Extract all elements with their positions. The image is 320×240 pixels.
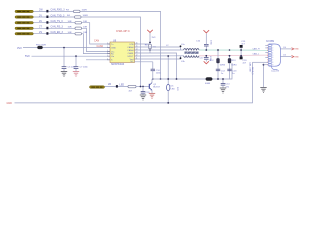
svg-text:5: 5 — [107, 55, 108, 57]
connector X2 DSUB9 body — [266, 41, 280, 66]
wire row2 CAN_TXD — [34, 17, 141, 87]
wire U1 pin to R8 — [138, 43, 151, 45]
ground bus wire bottom — [7, 62, 253, 105]
svg-text:GND: GND — [7, 102, 13, 105]
ferrite bead FB1 — [36, 45, 46, 49]
svg-text:2U: 2U — [39, 20, 42, 23]
junction LED/node row — [167, 78, 169, 80]
resistor R15 — [128, 85, 136, 92]
ground GND (C14) — [220, 88, 226, 93]
net flag row3 — [39, 20, 63, 24]
svg-text:SHLD_5: SHLD_5 — [251, 67, 253, 75]
wire row1 CAN_RXD — [34, 11, 161, 79]
transistor Q1 — [149, 83, 152, 91]
resistor R13 termination — [227, 49, 237, 79]
net 5V rail — [25, 54, 110, 58]
wire gnd pins vertical — [263, 65, 265, 88]
svg-text:CAN_GND: CAN_GND — [248, 62, 251, 72]
capacitor C14 split termination — [221, 78, 231, 88]
svg-text:2R: 2R — [108, 83, 111, 86]
resistor R4 row2 — [67, 15, 88, 18]
net CANH teal wire — [199, 49, 268, 51]
svg-text:10R: 10R — [68, 21, 72, 23]
connector pin P3 — [15, 22, 33, 24]
capacitor C20 — [141, 87, 151, 96]
connector pin P5 — [15, 33, 33, 35]
connector inner pin names — [272, 45, 273, 66]
svg-text:2S: 2S — [39, 31, 42, 34]
ground GND5V red (C7) — [73, 72, 79, 77]
svg-text:CAN_RS_3: CAN_RS_3 — [51, 26, 64, 29]
resistor R3 row1 — [66, 10, 87, 13]
capacitor C17 on CANL — [199, 56, 210, 62]
connector pin P4 — [15, 27, 33, 29]
svg-text:CAN: CAN — [94, 39, 99, 42]
junction 5V/C7 — [75, 55, 77, 57]
svg-text:CS8-4P C: CS8-4P C — [116, 29, 131, 33]
junction 3V3/C5 — [63, 47, 65, 49]
svg-text:CAN_TXD_3: CAN_TXD_3 — [51, 14, 65, 17]
junction LED top — [167, 55, 169, 57]
wire R15 to Q1 — [136, 86, 149, 88]
wire row5 — [34, 34, 111, 54]
U1 left pins — [107, 44, 110, 60]
wire emitter — [151, 90, 153, 93]
junction R8 top — [149, 42, 151, 44]
resistor R6 row4 — [68, 27, 88, 30]
svg-text:100n: 100n — [156, 72, 162, 74]
svg-text:10R: 10R — [83, 27, 87, 29]
ground GND (connector) — [260, 88, 266, 93]
svg-text:10R: 10R — [68, 32, 72, 34]
resistor R7 row5 — [68, 32, 88, 35]
op-amp U1 CAN transceiver body — [110, 29, 135, 66]
junction LED to bus — [167, 102, 169, 104]
ground AGND red (Q1 emitter) — [149, 93, 155, 98]
junction C16/CANH — [205, 49, 207, 51]
svg-text:CAN_H: CAN_H — [253, 47, 261, 50]
node row wire y79 — [152, 63, 232, 79]
junction base/C20 — [142, 86, 144, 88]
svg-text:GND: GND — [294, 49, 299, 51]
wire Q1 collector — [151, 79, 153, 83]
connector pin numbers red — [267, 45, 268, 66]
svg-text:CANL: CANL — [128, 52, 135, 55]
junction choke in top — [180, 45, 182, 47]
capacitor C16 on CANH — [196, 34, 212, 51]
svg-text:CG: CG — [283, 47, 286, 49]
svg-text:100R: 100R — [83, 15, 89, 17]
svg-text:600R: 600R — [205, 83, 211, 85]
junction C17/CANL — [205, 55, 207, 57]
junction R8 bottom on CANH wire — [149, 49, 151, 51]
wire U1 pin59 drop — [138, 56, 181, 59]
svg-text:CAN_TS_3: CAN_TS_3 — [51, 20, 64, 23]
svg-text:SN65HVD23: SN65HVD23 — [111, 64, 125, 66]
net CANL pink wire — [199, 54, 268, 57]
resistor R8 — [145, 44, 157, 53]
junction C10/node row — [152, 78, 154, 80]
svg-text:GND: GND — [294, 56, 299, 58]
svg-text:9: 9 — [272, 64, 273, 66]
junction R13/CANH cross — [229, 49, 231, 51]
svg-text:6: 6 — [107, 58, 108, 60]
capacitor C15 with flags — [240, 41, 248, 64]
svg-text:CAN_RXD_3: CAN_RXD_3 — [51, 9, 66, 12]
net flag row1 — [39, 9, 65, 13]
svg-text:NC: NC — [130, 61, 134, 63]
capacitor C5 — [62, 48, 77, 72]
svg-text:10R: 10R — [68, 27, 72, 29]
U1 right pins — [135, 44, 138, 59]
svg-text:CAN4: CAN4 — [97, 45, 104, 48]
power flag CG red — [204, 30, 210, 33]
connector pin P6 bottom — [90, 86, 105, 89]
svg-text:LED: LED — [120, 84, 125, 87]
svg-text:CANH: CANH — [127, 49, 134, 52]
wire right exit CG2 — [280, 55, 299, 59]
wire U1 CANH to choke — [138, 49, 184, 51]
resistor R5 row3 — [68, 21, 88, 24]
wire right exit CG1 — [280, 47, 299, 51]
ground GND (C20) — [140, 95, 146, 100]
wire stub pin6L — [86, 59, 110, 61]
net flag LED net — [108, 83, 124, 88]
svg-text:3V3: 3V3 — [17, 46, 22, 50]
svg-text:10R: 10R — [83, 21, 87, 23]
net flag row4 — [39, 26, 64, 30]
svg-text:GND: GND — [111, 47, 116, 49]
connector pin P1 — [15, 10, 33, 12]
U1 pin names right — [127, 44, 134, 63]
svg-text:STB: STB — [129, 44, 134, 46]
capacitor C7 — [74, 56, 89, 71]
svg-text:1: 1 — [107, 43, 108, 45]
svg-text:100n: 100n — [210, 40, 212, 46]
svg-text:5V0: 5V0 — [25, 54, 30, 58]
power flag 3V3_CAN — [147, 30, 156, 43]
wire U1 CANL to choke — [138, 55, 184, 57]
svg-text:X2 DB9: X2 DB9 — [266, 41, 275, 43]
svg-text:CAN_EN_3: CAN_EN_3 — [51, 31, 64, 34]
svg-text:C7 100n: C7 100n — [80, 67, 89, 69]
connector pin stubs — [253, 46, 269, 65]
junction row2/base — [140, 86, 142, 88]
ground GND (C5) — [61, 72, 67, 77]
svg-text:LED: LED — [171, 88, 176, 90]
resistor R12 termination — [209, 49, 225, 79]
connector pin boxes — [268, 45, 271, 66]
connector pin P2 — [15, 16, 33, 18]
svg-text:BC817: BC817 — [153, 87, 160, 89]
junction termination mid — [217, 78, 219, 80]
shield tail — [272, 66, 278, 69]
junction C15/CANL — [240, 55, 242, 57]
wire row3 — [34, 23, 111, 44]
LED D5 — [167, 55, 176, 103]
svg-text:10R: 10R — [83, 32, 87, 34]
svg-text:CAN_L: CAN_L — [253, 52, 261, 55]
svg-text:CG: CG — [283, 55, 286, 57]
wire U1 Vref drop to node row — [138, 53, 177, 79]
svg-text:CANH: CANH — [127, 46, 134, 49]
wire row4 — [34, 28, 111, 51]
svg-text:Case-RX: Case-RX — [271, 71, 280, 73]
svg-text:FB1 600R: FB1 600R — [36, 45, 46, 47]
net 3V3 rail — [17, 46, 110, 50]
junction Vref drop — [176, 78, 178, 80]
power flag CG red below C17 — [204, 61, 209, 64]
common-mode choke L2 — [166, 44, 199, 63]
junction row1/node row — [160, 78, 162, 80]
wire U1 pin47 drop — [138, 47, 181, 50]
svg-text:60R4: 60R4 — [220, 65, 226, 67]
junction choke in bottom — [180, 57, 182, 59]
U1 pin numbers — [107, 43, 138, 61]
capacitor C10 — [135, 62, 162, 79]
svg-text:100R: 100R — [82, 10, 88, 12]
ferrite bead FB2 — [205, 78, 212, 86]
svg-text:2: 2 — [107, 46, 108, 48]
svg-text:SPLIT: SPLIT — [127, 56, 134, 58]
U1 pin names left — [111, 44, 116, 62]
svg-text:2V: 2V — [39, 14, 42, 17]
wire P6 to R15 — [105, 86, 129, 88]
junction C15/CANH — [240, 49, 242, 51]
net flag row5 — [39, 31, 64, 35]
net flag row2 — [39, 14, 65, 18]
